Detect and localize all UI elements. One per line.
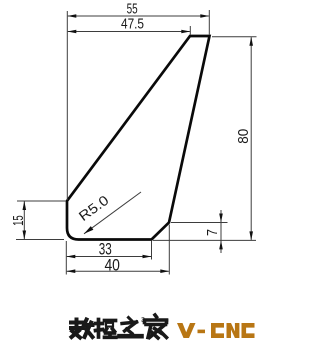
dimension 47.5 (68, 31, 190, 33)
logo chinese 控 (96, 320, 116, 338)
svg-text:80: 80 (235, 129, 252, 144)
dimension 15 line (23, 202, 25, 240)
part outline (67, 36, 210, 240)
svg-text:7: 7 (204, 229, 221, 236)
R5.0 leader (84, 192, 141, 234)
dimension 40 (67, 270, 169, 272)
dimension 33 (67, 256, 151, 258)
extension line right vertical (55) (208, 10, 210, 35)
extension line below chamfer bottom (33) (151, 241, 153, 260)
dimension 15 bottom extension (16, 239, 64, 241)
extension line from chamfer top (40) (168, 225, 170, 275)
logo V-CNC (177, 323, 255, 338)
logo chinese 家 (145, 315, 167, 338)
dimension 7 line between (220, 223, 222, 241)
dimension 7 arrows outside (220, 210, 222, 223)
svg-text:47.5: 47.5 (121, 16, 144, 33)
extension line left vertical (55/47.5) (66, 11, 68, 200)
svg-text:15: 15 (10, 215, 27, 226)
dimension 80 line (250, 37, 252, 240)
svg-text:40: 40 (104, 257, 120, 275)
dimension 15 top extension (17, 200, 66, 202)
svg-text:R5.0: R5.0 (76, 192, 112, 224)
extension line short above P1 (47.5) (189, 26, 191, 35)
logo chinese 之 (120, 318, 142, 337)
dimension 7 top extension (171, 222, 228, 224)
dimension 80 top extension (212, 36, 257, 38)
logo chinese 数 (71, 320, 93, 338)
dimension 80 bottom extension (153, 239, 256, 241)
extension line below bottom-left corner (33/40) (65, 241, 67, 275)
dimension 55 (68, 15, 209, 17)
